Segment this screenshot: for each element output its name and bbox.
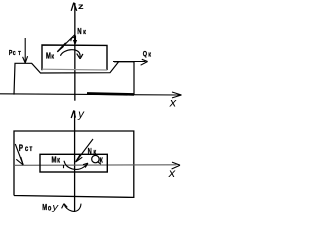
inner rectangle (carriage top view) (40, 154, 107, 172)
Qk symbol (bottom fig): big Q circle + k (92, 155, 101, 164)
axis letter labels (51, 1, 177, 213)
labels: condensed sans glyphs (9, 26, 152, 212)
big rectangle (bed top view) (14, 131, 134, 197)
svg-text:т: т (29, 143, 32, 153)
svg-text:М: М (42, 204, 47, 212)
Nk arrow (bottom fig) (76, 139, 94, 162)
x axis (bottom fig, gray) (14, 164, 177, 167)
svg-text:к: к (57, 157, 60, 165)
x axis (0, 92, 182, 98)
svg-text:М: М (52, 156, 57, 165)
Moy arc (around y axis bottom end) (62, 204, 81, 212)
small curl left of z axis (71, 37, 75, 41)
svg-text:Р: Р (19, 143, 23, 153)
z axis (71, 3, 77, 101)
Qk arrow (top fig) (113, 59, 148, 65)
carriage bottom gray line (42, 68, 107, 71)
Pst arrow (bottom fig) (15, 144, 23, 165)
small down arrow on z axis (74, 36, 76, 44)
svg-text:о: о (48, 205, 51, 213)
Pst arrow (top fig) (23, 38, 28, 63)
moment arc around origin (bottom fig) (64, 161, 88, 170)
svg-text:с: с (25, 143, 28, 153)
svg-text:Q: Q (143, 50, 147, 58)
Nk force arrow (diagonal) (57, 35, 75, 52)
rotation arc (moment) top fig (61, 50, 83, 59)
bed (machine base) outline (14, 62, 134, 95)
bed bottom thick segment (87, 93, 134, 94)
svg-text:М: М (46, 53, 51, 61)
svg-text:N: N (88, 148, 92, 156)
svg-text:с: с (13, 49, 16, 57)
svg-text:к: к (99, 155, 102, 165)
carriage rectangle (42, 45, 107, 70)
y axis (74, 111, 76, 212)
svg-text:z: z (78, 1, 85, 11)
small tick under Mk (63, 165, 65, 168)
svg-text:N: N (77, 26, 81, 36)
